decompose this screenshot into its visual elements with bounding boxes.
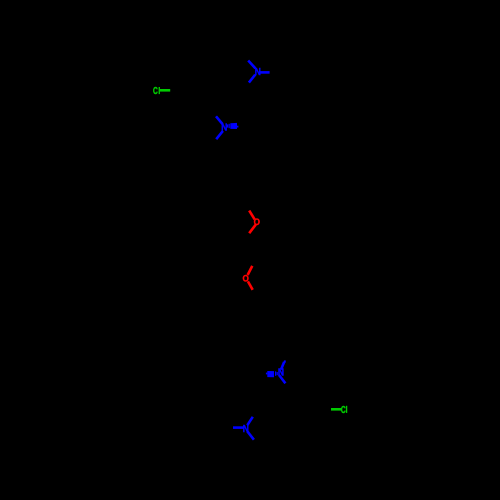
junction blob at top of N3 upper stub (284, 360, 286, 362)
svg-text:C: C (341, 405, 346, 416)
wire bond stub Cl2 to ring (green half-bond) (331, 408, 341, 411)
hashed wedge bond at N3 (blue half, bars grow leftward) (266, 371, 278, 377)
svg-text:C: C (153, 86, 158, 97)
atom label Cl2 letter l (drawn as bar) (346, 406, 347, 413)
wire bond stub N4 left (blue half-bond) (233, 426, 244, 429)
wire bond stub N1 upper-left (blue half-bond) (248, 61, 255, 69)
wire bond stub N2 lower-left (blue half-bond) (216, 131, 223, 139)
wire bond stub N2 upper-left (blue half-bond) (216, 116, 223, 124)
wire bond stub N4 lower-right (blue half-bond) (247, 431, 254, 439)
wire bond stub N1 lower-left (blue half-bond) (249, 75, 255, 83)
hashed wedge bond at N2 (blue half, bars grow rightward) (227, 123, 238, 129)
atom label Cl1 letter l (drawn as bar) (159, 87, 160, 94)
wire bond stub N1 right (blue half-bond) (259, 71, 270, 74)
wire bond stub N3 lower-right (blue half-bond) (279, 375, 285, 383)
wire bond stub O1 down-left (red half-bond) (249, 225, 256, 234)
wire bond stub N4 upper-right (blue half-bond) (247, 417, 253, 425)
wire bond stub O2 down-right (red half-bond) (248, 281, 253, 289)
wire bond stub N3 upper-right (blue half-bond) (281, 362, 284, 370)
wire bond stub O1 up-left (red half-bond) (249, 211, 255, 220)
wire bond stub O2 up-right (red half-bond) (248, 266, 253, 275)
wire bond stub Cl1 to ring (green half-bond) (160, 89, 170, 92)
